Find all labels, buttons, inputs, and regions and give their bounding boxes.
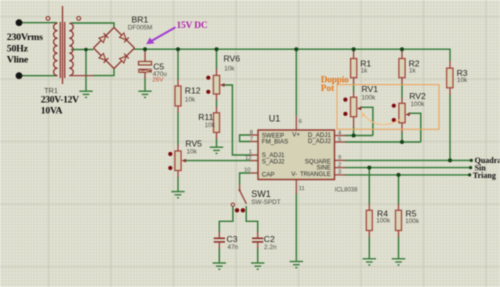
svg-text:10k: 10k bbox=[187, 149, 198, 156]
svg-text:D_ADJ2: D_ADJ2 bbox=[308, 138, 332, 145]
svg-text:TRIANGLE: TRIANGLE bbox=[300, 171, 331, 178]
svg-text:230V-12V: 230V-12V bbox=[41, 94, 79, 105]
svg-text:ICL8038: ICL8038 bbox=[335, 188, 358, 194]
svg-text:S_ADJ2: S_ADJ2 bbox=[262, 158, 285, 165]
svg-text:V+: V+ bbox=[292, 132, 300, 139]
svg-text:12: 12 bbox=[245, 155, 252, 161]
svg-text:2.2n: 2.2n bbox=[264, 244, 277, 251]
svg-text:10VA: 10VA bbox=[41, 105, 63, 116]
svg-text:47n: 47n bbox=[227, 244, 238, 251]
svg-text:15V DC: 15V DC bbox=[177, 21, 208, 31]
svg-text:11: 11 bbox=[299, 186, 305, 192]
svg-text:230Vrms: 230Vrms bbox=[7, 32, 43, 43]
svg-text:7: 7 bbox=[250, 136, 253, 142]
svg-text:RV5: RV5 bbox=[185, 138, 202, 148]
svg-text:RV2: RV2 bbox=[409, 91, 426, 101]
svg-text:V-: V- bbox=[291, 171, 297, 178]
svg-text:RV6: RV6 bbox=[224, 53, 241, 63]
svg-text:U1: U1 bbox=[269, 114, 281, 124]
svg-text:100k: 100k bbox=[411, 101, 426, 108]
svg-text:10k: 10k bbox=[457, 77, 468, 84]
svg-text:Triang: Triang bbox=[473, 171, 496, 180]
svg-text:R11: R11 bbox=[198, 112, 213, 122]
svg-text:FM_BIAS: FM_BIAS bbox=[262, 138, 288, 145]
svg-text:10k: 10k bbox=[185, 97, 196, 104]
svg-text:TR1: TR1 bbox=[44, 86, 58, 95]
svg-text:10k: 10k bbox=[205, 122, 216, 129]
svg-text:RV1: RV1 bbox=[362, 84, 379, 94]
svg-text:1k: 1k bbox=[361, 67, 369, 74]
svg-text:10: 10 bbox=[244, 168, 251, 174]
svg-text:100k: 100k bbox=[362, 94, 377, 101]
svg-text:10k: 10k bbox=[224, 65, 235, 72]
svg-text:100k: 100k bbox=[405, 218, 420, 225]
svg-text:26V: 26V bbox=[152, 77, 164, 84]
svg-text:CAP: CAP bbox=[262, 172, 275, 179]
svg-text:DF005M: DF005M bbox=[128, 24, 153, 31]
svg-text:Vline: Vline bbox=[7, 54, 29, 65]
svg-text:100k: 100k bbox=[376, 218, 391, 225]
svg-text:SW1: SW1 bbox=[251, 189, 271, 199]
svg-text:Pot: Pot bbox=[321, 84, 335, 94]
svg-text:SW-SPDT: SW-SPDT bbox=[251, 199, 280, 206]
svg-text:BR1: BR1 bbox=[132, 15, 149, 25]
svg-text:C2: C2 bbox=[264, 234, 275, 244]
svg-text:50Hz: 50Hz bbox=[7, 43, 29, 54]
svg-text:9: 9 bbox=[338, 155, 341, 161]
svg-text:C3: C3 bbox=[227, 234, 238, 244]
svg-text:R12: R12 bbox=[185, 85, 201, 95]
svg-text:2: 2 bbox=[338, 162, 341, 168]
svg-text:1k: 1k bbox=[409, 67, 417, 74]
